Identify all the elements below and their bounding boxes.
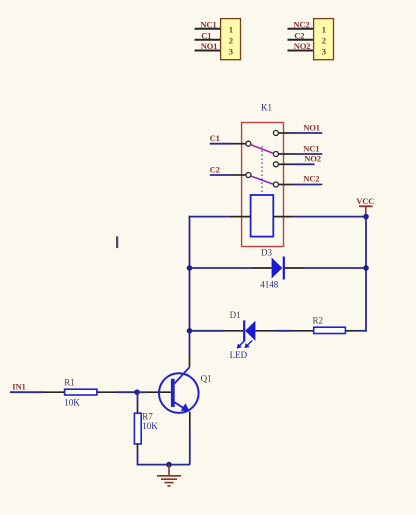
resistor R7 xyxy=(134,413,141,444)
wire D3 right xyxy=(304,267,366,269)
svg-text:K1: K1 xyxy=(261,103,272,113)
stray I mark xyxy=(116,236,118,248)
pin NC1 xyxy=(279,153,294,155)
relay coil xyxy=(251,195,274,237)
svg-text:NC1: NC1 xyxy=(200,19,216,29)
pin NC2 xyxy=(279,184,294,186)
svg-text:2: 2 xyxy=(322,36,326,46)
wire node down to R7 xyxy=(137,392,139,403)
pin C1 xyxy=(231,143,246,145)
relay contact circle C2 xyxy=(246,173,251,178)
relay switch arm 2 xyxy=(251,176,273,184)
pin C2 xyxy=(231,174,246,176)
svg-text:3: 3 xyxy=(322,46,326,56)
pin D1 anode xyxy=(255,330,275,332)
relay switch arm 1 xyxy=(251,145,273,154)
relay K1 body outline xyxy=(242,123,284,247)
wire D1 to R2 xyxy=(275,330,294,332)
pin Q1 base xyxy=(147,391,171,393)
svg-text:1: 1 xyxy=(322,25,326,35)
wire right rail xyxy=(365,217,367,332)
svg-text:NO1: NO1 xyxy=(201,41,218,51)
wire node to base xyxy=(137,391,147,393)
svg-text:D1: D1 xyxy=(230,310,241,320)
wire D3 left xyxy=(190,267,253,269)
svg-text:VCC: VCC xyxy=(356,196,374,206)
pin R1 left xyxy=(44,391,65,393)
svg-text:D3: D3 xyxy=(261,248,272,258)
svg-text:C2: C2 xyxy=(210,164,220,174)
wire R7 to ground rail xyxy=(137,454,139,466)
svg-text:LED: LED xyxy=(230,350,248,360)
LED D1 xyxy=(237,320,256,348)
junction ground node xyxy=(166,462,172,468)
pin Q1 emitter xyxy=(189,412,191,430)
connector P1 pin numbers xyxy=(229,25,233,57)
svg-text:C1: C1 xyxy=(201,30,211,40)
wire left rail xyxy=(189,216,191,355)
connector P2 pin wires xyxy=(288,29,314,51)
relay coil left pin xyxy=(230,216,251,218)
power port VCC xyxy=(356,196,374,217)
svg-text:IN1: IN1 xyxy=(12,381,25,391)
junction D3 left xyxy=(187,265,193,271)
svg-text:3: 3 xyxy=(229,46,233,56)
svg-text:C2: C2 xyxy=(294,30,304,40)
pin R2 right xyxy=(345,330,357,332)
svg-text:NC2: NC2 xyxy=(293,19,309,29)
junction D3 right xyxy=(363,265,369,271)
connector P1 body xyxy=(221,19,241,60)
relay contact circle NO1 xyxy=(273,131,278,136)
svg-text:Q1: Q1 xyxy=(201,374,212,384)
pin D3 cathode xyxy=(285,267,304,269)
svg-text:NO2: NO2 xyxy=(294,41,311,51)
wire NO2 xyxy=(294,163,315,165)
relay coil right pin xyxy=(273,216,293,218)
connector P2 body xyxy=(314,19,334,60)
svg-text:NO1: NO1 xyxy=(303,122,320,132)
wire NC1 xyxy=(294,153,323,155)
pin Q1 collector xyxy=(189,355,191,367)
connector P1 pin wires xyxy=(195,29,221,51)
pin NO2 xyxy=(279,163,294,165)
svg-text:NO2: NO2 xyxy=(304,154,321,164)
wire R1 to node xyxy=(117,391,138,393)
svg-text:4148: 4148 xyxy=(260,279,279,289)
wire C2 xyxy=(210,174,231,176)
pin R1 right xyxy=(97,391,117,393)
ground symbol xyxy=(157,465,181,486)
pin R2 left xyxy=(294,330,314,332)
svg-text:10K: 10K xyxy=(64,398,80,408)
svg-text:R2: R2 xyxy=(313,315,324,325)
relay contact circle C1 xyxy=(246,141,251,146)
junction base node xyxy=(134,389,140,395)
wire right rail bottom xyxy=(357,330,367,332)
wire coil left to rail xyxy=(189,216,230,218)
svg-text:10K: 10K xyxy=(142,421,158,431)
relay contact circle NC2 xyxy=(273,182,278,187)
svg-text:1: 1 xyxy=(229,25,233,35)
pin R7 bottom xyxy=(137,444,139,454)
resistor R2 xyxy=(314,327,346,333)
transistor Q1 xyxy=(159,367,199,413)
svg-text:NC1: NC1 xyxy=(303,143,319,153)
wire bottom horizontal xyxy=(138,464,190,466)
junction VCC node xyxy=(363,214,369,220)
relay linkage dotted line xyxy=(261,147,263,195)
svg-text:R1: R1 xyxy=(64,378,75,388)
wire IN1 xyxy=(10,391,44,393)
junction LED left xyxy=(187,328,193,334)
wire NC2 xyxy=(294,184,323,186)
pin R7 top xyxy=(137,403,139,413)
wire C1 xyxy=(210,143,231,145)
wire coil right to VCC xyxy=(294,216,367,218)
wire emitter down xyxy=(189,430,191,465)
svg-text:2: 2 xyxy=(229,36,233,46)
svg-text:C1: C1 xyxy=(210,133,220,143)
relay contact circle NO2 xyxy=(273,162,278,167)
pin NO1 xyxy=(279,132,294,134)
resistor R1 xyxy=(65,389,97,395)
diode D3 xyxy=(272,257,284,280)
wire NO1 xyxy=(294,132,323,134)
pin D1 cathode xyxy=(224,330,243,332)
connector P2 pin numbers xyxy=(322,25,326,57)
pin D3 anode xyxy=(252,267,272,269)
svg-text:NC2: NC2 xyxy=(303,174,319,184)
relay contact circle NC1 xyxy=(273,152,278,157)
wire LED left xyxy=(190,330,225,332)
